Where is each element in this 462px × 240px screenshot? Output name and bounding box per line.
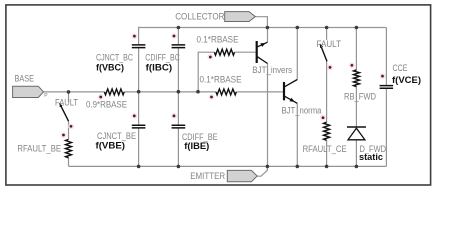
svg-text:CJNCT_BE: CJNCT_BE <box>97 131 136 141</box>
wire: right FAULT column <box>326 28 328 167</box>
capacitor CJNCT_BC <box>96 45 145 74</box>
svg-text:0.1*RBASE: 0.1*RBASE <box>200 74 242 84</box>
wire: CDIFF_BE column <box>177 92 179 167</box>
wire: upper branch to 0.1*RBASE <box>198 52 256 91</box>
svg-text:f(IBC): f(IBC) <box>146 63 173 74</box>
transistor BJT_normal <box>282 80 322 116</box>
wire: left FAULT / RFAULT_BE column <box>68 92 70 166</box>
wire: CCE column <box>385 28 387 167</box>
wire: CDIFF_BC column <box>177 28 179 92</box>
svg-text:RFAULT_BE: RFAULT_BE <box>17 143 61 153</box>
resistor 0.9*RBASE <box>86 89 127 110</box>
svg-text:BASE: BASE <box>15 73 35 83</box>
port EMITTER <box>190 170 257 181</box>
wire: COLLECTOR pin stub <box>255 17 267 28</box>
capacitor CDIFF_BC <box>145 45 185 74</box>
switch FAULT (right) <box>317 39 342 61</box>
svg-text:RB_FWD: RB_FWD <box>344 91 376 101</box>
svg-text:RFAULT_CE: RFAULT_CE <box>303 144 347 154</box>
wire: bottom rail <box>69 165 387 167</box>
capacitor CDIFF_BE <box>172 125 218 152</box>
port BASE <box>13 73 49 99</box>
svg-text:FAULT: FAULT <box>317 39 342 49</box>
junction dots middle rail <box>67 90 200 94</box>
svg-text:CJNCT_BC: CJNCT_BC <box>96 53 133 63</box>
wire: RB_FWD / D_FWD column <box>355 28 357 167</box>
svg-text:BJT_norma: BJT_norma <box>282 106 322 116</box>
resistor RB_FWD <box>344 70 376 102</box>
resistor 0.1*RBASE (lower) <box>200 74 242 95</box>
border frame <box>6 5 431 185</box>
svg-text:f(IBE): f(IBE) <box>184 141 209 152</box>
svg-text:FAULT: FAULT <box>55 98 78 108</box>
svg-text:CCE: CCE <box>393 63 408 73</box>
port COLLECTOR <box>175 11 255 21</box>
resistor RFAULT_CE <box>303 122 347 154</box>
switch FAULT (left) <box>55 98 78 122</box>
junction dots top rail <box>177 26 359 30</box>
wire: BJT_invers emitter column <box>267 28 269 43</box>
resistor RFAULT_BE <box>17 139 71 157</box>
wire: CJNCT_BC column <box>138 27 140 92</box>
svg-text:0.1*RBASE: 0.1*RBASE <box>197 35 239 45</box>
resistor 0.1*RBASE (upper) <box>197 35 239 56</box>
svg-text:CDIFF_BC: CDIFF_BC <box>145 53 180 63</box>
sheet background <box>0 0 462 191</box>
wire: middle base rail <box>44 91 284 93</box>
wire: top rail <box>139 27 387 29</box>
fault indicator red dots <box>61 33 386 138</box>
wire: BJT_normal collector column <box>296 28 298 80</box>
svg-text:0.9*RBASE: 0.9*RBASE <box>86 100 127 110</box>
svg-text:EMITTER: EMITTER <box>190 171 225 181</box>
svg-text:f(VBE): f(VBE) <box>96 140 126 151</box>
wire: CJNCT_BE column <box>138 92 140 167</box>
wire: EMITTER pin stub <box>257 166 267 176</box>
svg-text:static: static <box>359 152 383 163</box>
capacitor CCE <box>380 63 421 88</box>
transistor BJT_invers <box>252 41 292 75</box>
junction dots bottom rail <box>137 165 358 169</box>
svg-text:BJT_invers: BJT_invers <box>252 65 292 75</box>
wire: BJT_invers collector column <box>267 64 269 167</box>
svg-text:COLLECTOR: COLLECTOR <box>175 11 225 21</box>
diode D_FWD <box>347 127 386 163</box>
wire: BJT_normal emitter column <box>296 103 298 166</box>
svg-text:f(VCE): f(VCE) <box>392 75 421 86</box>
capacitor CJNCT_BE <box>96 125 146 151</box>
svg-text:f(VBC): f(VBC) <box>96 63 124 74</box>
